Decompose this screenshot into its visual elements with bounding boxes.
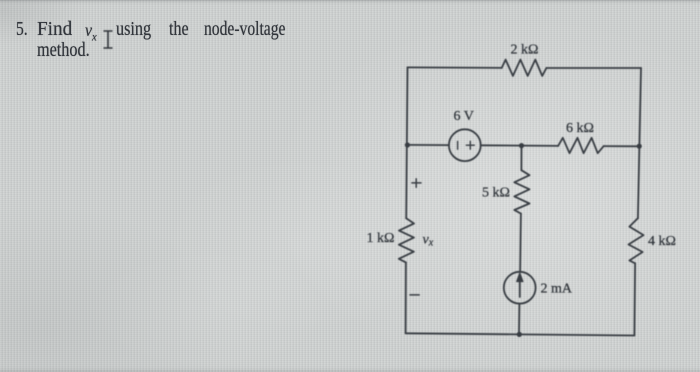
resistor 2 kOhm — [502, 60, 547, 76]
voltage source minus terminal mark — [457, 141, 459, 149]
resistor 1 kOhm — [399, 218, 414, 262]
svg-text:1 kΩ: 1 kΩ — [367, 231, 395, 246]
voltage source plus terminal mark — [466, 141, 474, 149]
node dot center middle — [519, 143, 524, 148]
svg-text:2 mA: 2 mA — [541, 282, 573, 297]
svg-text:vx: vx — [423, 233, 434, 249]
resistor 4 kOhm — [629, 218, 644, 263]
wire center branch lower — [518, 304, 520, 335]
node dot left middle — [405, 142, 410, 147]
wire bottom edge — [406, 333, 635, 335]
wire right edge lower — [633, 263, 636, 335]
svg-text:6 kΩ: 6 kΩ — [566, 121, 594, 136]
svg-text:2 kΩ: 2 kΩ — [511, 43, 539, 58]
wire center branch upper — [520, 146, 522, 171]
wire middle row center — [481, 144, 558, 147]
wire left edge lower — [405, 262, 407, 333]
svg-text:4 kΩ: 4 kΩ — [648, 234, 676, 249]
voltage source V1 6V circle — [449, 129, 481, 161]
node dot bottom — [517, 332, 522, 337]
node dot right middle — [637, 144, 642, 149]
problem statement text — [0, 0, 1, 1]
resistor 6 kOhm — [558, 138, 604, 153]
wire middle row left — [407, 144, 449, 146]
wire center branch middle — [519, 214, 522, 272]
wire left edge upper — [406, 67, 407, 218]
text cursor I-beam — [104, 31, 113, 48]
svg-text:6 V: 6 V — [454, 109, 474, 124]
svg-text:5 kΩ: 5 kΩ — [482, 186, 510, 201]
wire top edge right — [546, 67, 641, 69]
wire middle row right — [604, 145, 640, 147]
minus polarity mark vx — [410, 294, 419, 296]
resistor 5 kOhm — [514, 170, 529, 213]
current source arrow — [519, 281, 521, 297]
wire top edge left — [408, 66, 502, 69]
wire right edge upper — [638, 68, 641, 218]
current source I1 2mA circle — [504, 272, 536, 304]
plus polarity mark vx — [412, 179, 421, 188]
